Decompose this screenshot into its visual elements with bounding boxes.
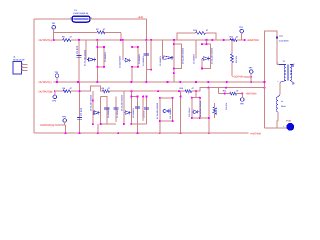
svg-text:R15 4.7k: R15 4.7k	[215, 106, 218, 115]
lower loop A	[101, 97, 116, 125]
wire TP6 stem	[64, 122, 66, 125]
wire down to bus	[64, 125, 66, 133]
diode D3 glass diode	[163, 56, 174, 60]
svg-text:+CD/7000: +CD/7000	[232, 76, 244, 79]
svg-text:R11: R11	[223, 89, 227, 92]
svg-text:R13 47k: R13 47k	[235, 55, 238, 63]
junction loop D	[173, 43, 175, 74]
junction H4 x=226.7	[226, 81, 228, 83]
junction right vertical	[263, 81, 265, 83]
lower diode D6	[124, 111, 131, 115]
lower D6 label	[121, 94, 124, 111]
diode block D rail	[162, 40, 164, 60]
transformer pin3 stub	[290, 62, 294, 67]
wire TP1 stem	[53, 29, 55, 40]
transformer T1 windings	[284, 65, 292, 81]
svg-text:D7 GLASS DIODE: D7 GLASS DIODE	[156, 102, 159, 119]
svg-text:C4 10/600V: C4 10/600V	[142, 55, 145, 66]
svg-text:1L 100uF: 1L 100uF	[116, 109, 119, 118]
resistor R9 47 on H6	[102, 87, 111, 93]
diode D3 label	[159, 55, 162, 66]
junction H6 end	[241, 93, 243, 95]
svg-text:47: 47	[103, 28, 106, 31]
wire H76	[244, 76, 251, 78]
cap loop E	[202, 44, 211, 68]
lower diode D7	[162, 109, 170, 113]
junction H4 x=57	[56, 81, 58, 83]
test point TP5 below	[240, 98, 245, 106]
lower cap B bars	[135, 107, 140, 109]
svg-text:C9 10/600V: C9 10/600V	[132, 107, 135, 118]
junction H4 x=208.3	[207, 81, 209, 83]
capacitor C1 474 label	[76, 45, 79, 54]
junction bus x=137.5	[136, 132, 138, 134]
svg-text:+24V: +24V	[138, 16, 144, 19]
wire L1 to bottom path	[277, 112, 278, 128]
resistor R7 47 on H2	[96, 28, 106, 34]
diode block E rail	[195, 40, 197, 59]
resistor R13 47k vertical	[231, 40, 238, 76]
svg-text:47: 47	[192, 87, 195, 90]
net label CD right	[232, 76, 244, 79]
svg-text:T1: T1	[283, 60, 286, 63]
wire H2 from TP1 stem	[54, 31, 97, 33]
junction H6 start	[54, 90, 56, 92]
bus wire bottom	[34, 132, 249, 134]
wire V corner H2 down to H3	[120, 32, 122, 40]
lower loop D	[160, 98, 173, 133]
wire H3 label to R6	[54, 39, 63, 41]
lower rail 180.6	[180, 91, 182, 134]
capacitor C1 474 rail	[78, 40, 80, 82]
lower loop E	[192, 91, 200, 118]
svg-text:TP7: TP7	[249, 67, 254, 70]
svg-text:J1: J1	[13, 55, 16, 58]
junction H4 x=180.3	[179, 81, 181, 83]
resistor R14 47 in loop	[193, 29, 209, 34]
lower block C rails	[131, 97, 149, 125]
test point TP7	[249, 67, 254, 74]
svg-text:TP6: TP6	[62, 116, 67, 119]
junction H3 x=151.2	[150, 39, 152, 41]
resistor R6 47 on H3	[62, 36, 73, 42]
svg-text:D6 GLASS DIODE: D6 GLASS DIODE	[121, 94, 124, 111]
lower cap A label	[107, 107, 110, 118]
pad pin number	[283, 125, 284, 128]
svg-text:+5V/7000: +5V/7000	[246, 93, 258, 96]
junction loop E	[201, 43, 208, 69]
svg-text:47: 47	[70, 36, 73, 39]
svg-text:3: 3	[294, 62, 295, 65]
resistor R15 small vertical	[213, 103, 218, 118]
net label +5V/7000	[246, 93, 258, 96]
svg-text:47: 47	[236, 35, 239, 38]
lower diode D8	[193, 110, 200, 114]
long vertical right	[264, 82, 266, 128]
cap A label	[104, 51, 107, 62]
lower junctions E	[191, 97, 201, 119]
svg-text:2: 2	[22, 65, 23, 68]
lower junctions D	[159, 97, 174, 135]
cap loop A	[97, 47, 104, 67]
svg-text:2.5uF/600V: 2.5uF/600V	[279, 39, 290, 42]
test point TP2 above H3 right	[239, 26, 244, 33]
loop E rails	[202, 40, 207, 69]
svg-text:C2 50/600V: C2 50/600V	[104, 51, 107, 62]
wire H6b drop	[217, 88, 219, 94]
junction H3 x=223.7	[223, 39, 225, 41]
svg-text:R10: R10	[180, 87, 185, 90]
junction H4 x=196	[195, 81, 197, 83]
svg-text:OUTPUT(-): OUTPUT(-)	[39, 81, 52, 84]
wire H1 fuse to +24V corner	[90, 18, 147, 20]
cap C bars	[144, 54, 149, 56]
junction H4 x=131.4	[130, 81, 132, 83]
svg-text:C8 50/600V: C8 50/600V	[107, 107, 110, 118]
inductor L1 39uH	[276, 97, 286, 112]
svg-text:R14: R14	[193, 29, 198, 32]
pin numbers	[22, 62, 23, 71]
svg-text:C7 474: C7 474	[80, 107, 83, 116]
svg-text:47: 47	[206, 29, 209, 32]
svg-text:47: 47	[236, 89, 239, 92]
svg-text:OUTPUT(+): OUTPUT(+)	[39, 39, 53, 42]
block C rails	[146, 40, 151, 82]
wire H1 top from input rail to fuse	[34, 18, 72, 20]
junction H4 x=78	[77, 81, 79, 83]
wire TP7 stem	[250, 73, 252, 82]
svg-text:C1 474: C1 474	[76, 45, 79, 54]
lower text col right	[225, 102, 228, 110]
net label OUTPUT(S) H6	[39, 90, 53, 93]
transformer pin2 lead	[278, 80, 286, 83]
svg-text:C12 100uF: C12 100uF	[188, 107, 191, 117]
wire label to TP stem	[55, 124, 66, 126]
svg-text:4: 4	[294, 82, 295, 85]
svg-text:FUSE 15A(D-H): FUSE 15A(D-H)	[74, 12, 89, 15]
resistor loop above H3	[177, 33, 216, 40]
diode D4 glass diode	[202, 57, 211, 61]
svg-text:C3 50/600V: C3 50/600V	[138, 53, 141, 64]
svg-text:F1: F1	[75, 9, 78, 12]
diode D2 glass diode	[124, 58, 131, 62]
transformer pin2 wire	[279, 82, 281, 94]
svg-text:D4 GLASS DIODE: D4 GLASS DIODE	[211, 47, 214, 64]
connector pin stub 1	[22, 64, 28, 66]
junction bus x=97.8	[97, 132, 99, 134]
output pad solid circle	[286, 123, 294, 131]
bottom path to pad	[265, 127, 287, 129]
junction bus x=79.5	[78, 132, 80, 134]
wire loop E to rail	[200, 117, 210, 119]
resistor R10 47 on H6	[180, 87, 195, 93]
junction bus x=118.2	[117, 132, 119, 134]
lower loop B	[131, 91, 137, 133]
junction H6 mid	[130, 87, 265, 93]
diode D1 label	[84, 49, 87, 66]
wire H6 a	[55, 90, 63, 92]
junction loop A	[96, 46, 105, 68]
svg-text:D1 GLASS DIODE: D1 GLASS DIODE	[84, 49, 87, 66]
svg-text:C3 22uF/250V: C3 22uF/250V	[118, 55, 121, 68]
junction bus x=65.4	[64, 132, 66, 134]
svg-text:+24V/7000: +24V/7000	[247, 39, 260, 42]
junction H3 x=174	[173, 39, 175, 41]
wire H6 end stub	[237, 93, 243, 95]
fuse F1 with label FUSE 15A(D-H)	[70, 9, 91, 22]
svg-text:R6: R6	[62, 36, 65, 39]
lower junctions A	[92, 99, 102, 134]
svg-text:ATX6 4.5-2P: ATX6 4.5-2P	[13, 58, 25, 61]
net label +24V	[138, 16, 144, 19]
block C join	[146, 69, 152, 71]
junction H4 x=251.2	[250, 81, 252, 83]
cap E label	[211, 47, 214, 64]
cap loop A rail	[96, 40, 98, 82]
lower block B rails	[124, 91, 131, 124]
net label +24V/7000 right	[247, 39, 260, 42]
svg-text:D5 GLASS DIODE: D5 GLASS DIODE	[90, 94, 93, 111]
test point TP4 left H6	[52, 95, 57, 103]
svg-text:C6 10/600V: C6 10/600V	[193, 53, 196, 64]
wire TP5 stem	[241, 94, 243, 98]
resistor R11 47 end	[223, 89, 240, 95]
diode block A rail	[85, 40, 87, 60]
svg-text:TP1: TP1	[52, 22, 57, 25]
inductor L1 top lead	[278, 95, 280, 97]
svg-text:R9: R9	[102, 87, 105, 90]
junction H3 x=97.4	[96, 39, 98, 41]
svg-text:TP3: TP3	[55, 71, 60, 74]
svg-text:OUTPUT(S): OUTPUT(S)	[39, 90, 53, 93]
wire H6b seg	[218, 93, 229, 95]
loop D rail	[173, 40, 175, 82]
svg-text:D3 GLASS DIODE: D3 GLASS DIODE	[181, 47, 184, 64]
junction H3 at TP stem	[53, 39, 55, 41]
wire V from +24V corner down to H3	[146, 19, 148, 40]
junction H3 x=146.3	[145, 39, 147, 41]
junction H3 x=206.5	[205, 39, 207, 41]
wire V-left main input rail	[33, 19, 35, 133]
lower block A rails	[93, 91, 101, 124]
net label OUTPUT(+) left	[39, 39, 53, 42]
connector pin stub 2	[22, 67, 28, 69]
svg-text:47: 47	[108, 87, 111, 90]
junction H3 x=232	[231, 39, 233, 41]
net label OUTPUT(G)	[40, 124, 54, 127]
capacitor C1 474 bars	[76, 56, 81, 58]
net label Pad1	[286, 120, 292, 123]
diode D2 label	[118, 55, 121, 68]
svg-text:+0V/7000: +0V/7000	[250, 132, 262, 135]
cap loop D	[174, 44, 182, 68]
wire TP3 stem	[56, 77, 58, 82]
junction loop B	[131, 46, 139, 68]
transformer pin1 lead	[277, 62, 286, 65]
lower cap B label	[132, 107, 135, 118]
wire TP2 stem	[241, 33, 243, 40]
loop B rail down	[131, 67, 133, 82]
net label OUTPUT(-) H4	[39, 81, 52, 84]
svg-text:1: 1	[22, 62, 23, 65]
junction H3 x=122.8	[122, 39, 124, 41]
wire H3 right stub	[237, 39, 245, 41]
svg-text:R8: R8	[63, 87, 66, 90]
diode D4 label	[193, 53, 196, 64]
lower diode D5	[93, 111, 101, 115]
test point TP1	[52, 22, 57, 29]
svg-text:C5 10/600V: C5 10/600V	[159, 55, 162, 66]
junction H3 x=120.8	[120, 39, 122, 41]
svg-text:L1: L1	[281, 100, 283, 103]
resistor R12 47 on H3 right	[230, 35, 240, 41]
net label bus right	[250, 132, 262, 135]
svg-text:D8 GLASS DIODE: D8 GLASS DIODE	[199, 100, 202, 117]
svg-text:Pad1: Pad1	[286, 120, 292, 123]
diode D1 glass diode	[87, 58, 96, 62]
wire H6 b	[110, 90, 186, 92]
svg-text:C14: C14	[279, 34, 283, 37]
transformer T1 label	[283, 60, 286, 63]
svg-text:1: 1	[70, 16, 71, 19]
capacitor C14 marker	[276, 34, 290, 42]
svg-text:C13 474: C13 474	[225, 102, 228, 110]
svg-text:39uH: 39uH	[281, 105, 286, 108]
capacitor C7 474 label	[80, 107, 83, 116]
connector pin stub 3	[22, 70, 28, 72]
test point TP6	[62, 116, 67, 123]
junction H4 x=97.4	[96, 81, 98, 83]
lower rails mid	[113, 97, 119, 123]
wire H2 to corner	[105, 31, 121, 33]
diode block B rail	[122, 40, 124, 60]
svg-text:TP5: TP5	[240, 103, 245, 106]
snubber loop rectangle	[265, 31, 278, 82]
resistor R8 47 on H6	[63, 87, 73, 93]
cap B label	[138, 53, 141, 64]
lower D8 labels	[188, 100, 202, 117]
wire H6 jog1	[71, 86, 103, 91]
transformer pin4 stub	[290, 81, 294, 85]
svg-text:47: 47	[70, 87, 73, 90]
lower rail 209.3	[208, 88, 210, 135]
junction H4 x=146.3	[145, 81, 147, 83]
lower junctions C	[142, 95, 147, 97]
connector J1 ATX6 4.5-2P	[13, 55, 25, 74]
wire H4	[54, 81, 265, 83]
lower D7 labels	[156, 102, 172, 119]
cap C label	[142, 55, 145, 66]
cap loop B	[132, 47, 138, 67]
junction H4 x=167.5	[166, 81, 168, 83]
lower cap A bars	[104, 108, 109, 110]
capacitor C7 474 bars	[77, 118, 82, 120]
junction H76	[250, 76, 252, 78]
cap D label	[181, 47, 184, 64]
svg-text:OUTPUT(G): OUTPUT(G)	[40, 124, 54, 127]
wire TP4 stem	[54, 91, 56, 95]
wire H6 c	[192, 88, 266, 92]
svg-text:R7: R7	[96, 28, 99, 31]
junction H3 x=79	[78, 39, 80, 41]
wire H3 main	[71, 39, 230, 41]
svg-text:3: 3	[22, 68, 23, 71]
svg-text:TP2: TP2	[239, 26, 244, 29]
lower D5 label	[90, 94, 93, 111]
wire lower A to bus	[93, 113, 98, 134]
svg-text:2: 2	[278, 80, 279, 83]
junction H3 x=212.3	[211, 39, 213, 41]
svg-text:C11 10/600V: C11 10/600V	[169, 107, 172, 119]
svg-text:1: 1	[283, 125, 284, 128]
test point TP3	[55, 71, 60, 78]
junction H3 right end	[244, 39, 246, 41]
lower junctions B	[123, 95, 139, 134]
svg-text:1: 1	[278, 62, 279, 65]
capacitor C7 474 rail	[78, 82, 80, 133]
svg-text:R12: R12	[230, 35, 235, 38]
svg-text:TP4: TP4	[52, 100, 57, 103]
